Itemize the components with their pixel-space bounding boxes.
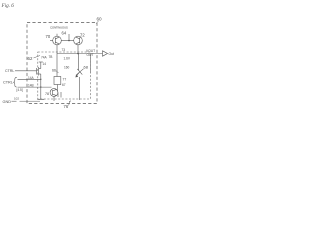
svg-text:74A: 74A <box>41 55 48 59</box>
leader arrow for label 76 <box>69 101 71 106</box>
wire GND lead <box>12 100 17 102</box>
svg-text:68: 68 <box>84 65 89 70</box>
svg-text:102: 102 <box>14 97 19 101</box>
svg-text:66: 66 <box>52 69 56 73</box>
svg-text:73: 73 <box>62 48 66 52</box>
brace for CTRL <box>14 77 17 87</box>
wire Q72 drain down <box>77 45 79 54</box>
wire left rail top <box>40 62 42 67</box>
svg-text:14B: 14B <box>28 84 34 88</box>
outer dashed box 60 <box>27 23 97 104</box>
svg-text:CONTINUOUS: CONTINUOUS <box>50 25 68 29</box>
svg-text:62: 62 <box>28 56 33 61</box>
node ctrl A junction <box>40 79 41 80</box>
wire left rail bottom <box>40 78 42 99</box>
transistor Q72 <box>74 36 83 45</box>
wire Q70 drain down <box>56 45 58 54</box>
wire center node down <box>56 54 58 77</box>
wire Q70 source stub <box>56 34 58 36</box>
leader for label 62 <box>34 56 41 59</box>
transistor Q74 <box>50 89 58 97</box>
output port symbol <box>103 51 108 56</box>
wire M1 gate input <box>15 70 37 72</box>
node left rail tick <box>39 61 43 63</box>
svg-text:Out: Out <box>109 52 115 56</box>
leader for label 60 <box>96 21 99 24</box>
svg-text:[4.5]: [4.5] <box>17 88 23 92</box>
svg-text:CTRL: CTRL <box>3 81 13 85</box>
svg-text:60: 60 <box>97 17 103 22</box>
node output junction <box>77 53 79 55</box>
wire resistor to Q74 <box>56 85 58 92</box>
wire gate stub up <box>68 34 70 41</box>
ground tick left rail <box>37 98 44 100</box>
node ctrl B junction <box>40 86 41 87</box>
svg-text:7B: 7B <box>49 55 53 59</box>
svg-text:GND: GND <box>3 100 12 104</box>
leader for label 72 <box>80 37 81 38</box>
svg-text:160: 160 <box>64 66 70 70</box>
capacitor stub plates <box>57 93 59 98</box>
svg-text:1.6V: 1.6V <box>64 57 71 61</box>
svg-text:Fig. 6: Fig. 6 <box>1 3 15 9</box>
svg-text:OUT: OUT <box>87 53 94 57</box>
svg-text:64: 64 <box>62 31 67 36</box>
wire mirror gates <box>61 40 73 42</box>
wire right rail segment <box>89 54 91 74</box>
svg-text:70: 70 <box>46 34 51 39</box>
svg-text:78: 78 <box>45 92 49 96</box>
wire ctrl A <box>18 78 41 80</box>
wire ctrl B <box>18 86 52 88</box>
transistor Q70 <box>50 36 61 45</box>
wire GND inside <box>20 100 41 102</box>
inner dashed box 62 <box>38 52 91 99</box>
svg-text:77: 77 <box>63 77 67 81</box>
wire Q68 emitter down <box>79 77 81 100</box>
svg-text:67: 67 <box>62 83 66 87</box>
svg-text:76: 76 <box>64 104 69 109</box>
leader for label 66 <box>56 71 59 73</box>
svg-text:CTRL: CTRL <box>5 69 14 73</box>
wire Q68 collector <box>78 54 80 71</box>
svg-text:14A: 14A <box>28 76 35 80</box>
wire output rail <box>57 53 103 55</box>
svg-text:14: 14 <box>43 62 47 66</box>
transistor Q68 <box>76 69 84 77</box>
node mirror tie <box>68 40 70 42</box>
transistor M1 <box>37 67 41 78</box>
wire Q74 emitter down <box>53 96 55 101</box>
resistor R box <box>54 77 61 85</box>
